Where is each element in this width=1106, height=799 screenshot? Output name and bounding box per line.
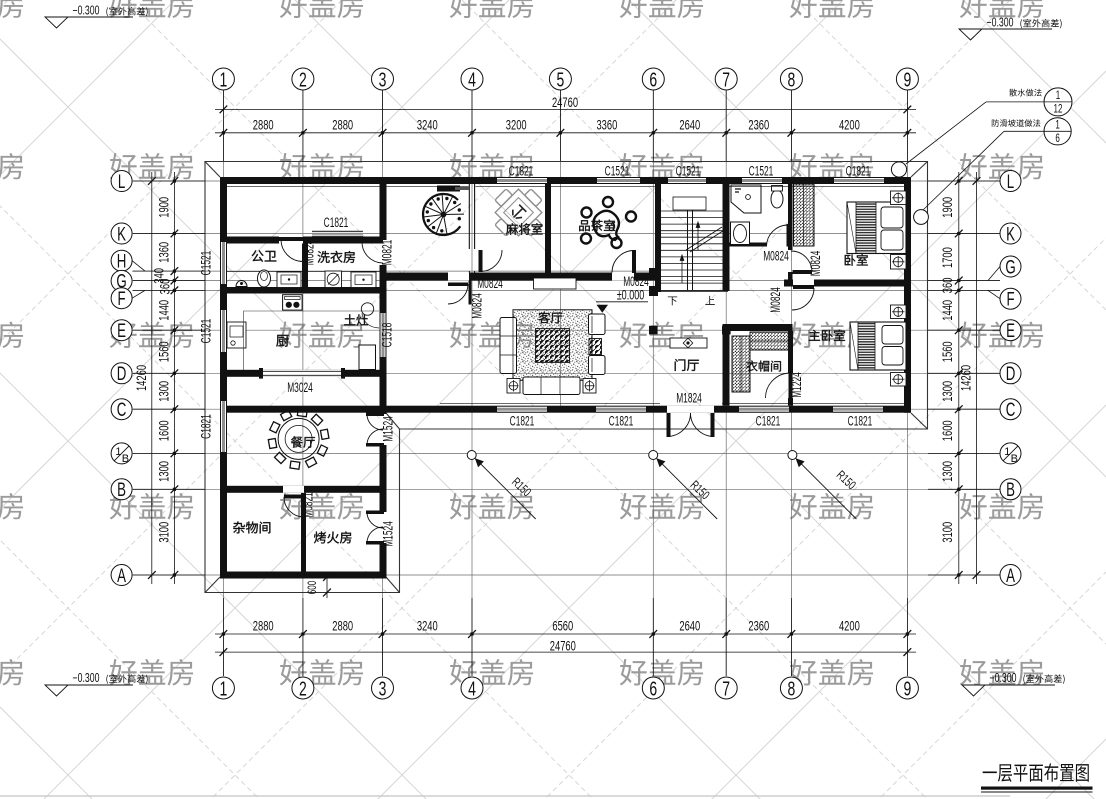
svg-text:M3024: M3024 — [287, 381, 313, 395]
svg-text:M0824: M0824 — [303, 240, 317, 266]
svg-text:1360: 1360 — [156, 242, 172, 263]
svg-text:E: E — [1006, 321, 1015, 342]
svg-text:2: 2 — [299, 68, 307, 91]
door gap M3024 row D — [261, 370, 343, 377]
door M0824 corridor-living — [448, 283, 468, 287]
label 品茶室 — [579, 220, 615, 232]
living room sofa bottom — [523, 377, 580, 395]
column pier c6-H — [649, 268, 658, 277]
door M0824 master — [793, 285, 814, 289]
label 餐厅 — [291, 436, 315, 447]
door gap M1224 closet — [788, 373, 793, 398]
svg-text:3: 3 — [379, 677, 387, 700]
dimension texts right chain — [939, 197, 955, 543]
wall mahjong-tea divider — [545, 184, 551, 273]
door gap M0821 col3 laundry — [380, 240, 387, 265]
dimension texts left chain — [151, 197, 173, 543]
svg-text:C1821: C1821 — [756, 415, 781, 429]
porch column R150 #2 — [649, 451, 658, 460]
svg-text:3100: 3100 — [939, 521, 955, 542]
door gaps M0824 row G band — [448, 273, 469, 281]
svg-text:3240: 3240 — [417, 116, 438, 132]
svg-text:A: A — [117, 566, 126, 587]
window C1521 col1 kitchen — [220, 310, 227, 352]
svg-text:M1524: M1524 — [382, 521, 396, 547]
window C1518 col3 — [380, 313, 387, 357]
laundry counter — [351, 272, 376, 288]
svg-text:B: B — [117, 480, 126, 501]
living room armchair right 2 — [589, 356, 606, 375]
svg-text:3100: 3100 — [156, 521, 172, 542]
porch column R150 #1 — [467, 451, 476, 460]
label 门厅 — [675, 359, 699, 371]
svg-text:−0.300: −0.300 — [73, 4, 100, 18]
window C1821 top wall 5 — [834, 177, 884, 184]
door M0824 corridor-mahjong leaf and arc — [479, 250, 483, 272]
svg-text:C1821: C1821 — [324, 216, 349, 230]
svg-text:1440: 1440 — [939, 300, 955, 321]
door gap M0824 row K — [279, 237, 303, 244]
svg-text:M1224: M1224 — [790, 372, 804, 398]
title 一层平面布置图 — [983, 763, 1089, 782]
wire dimension lines bottom — [215, 598, 916, 676]
spiral staircase — [423, 194, 464, 235]
toilet room floor drain — [236, 281, 247, 287]
wall col 4 stub below G — [469, 281, 472, 305]
svg-text:2880: 2880 — [332, 116, 353, 132]
svg-text:8: 8 — [788, 68, 796, 91]
svg-text:1300: 1300 — [156, 381, 172, 402]
dimension texts top chain — [253, 116, 860, 132]
svg-text:C: C — [117, 400, 127, 421]
wall col 8 closet right — [788, 331, 793, 406]
door M0824 bathroom — [787, 224, 791, 247]
detail circle on apron right — [914, 210, 929, 225]
detail circle on apron corner — [891, 162, 906, 177]
svg-text:M0821: M0821 — [302, 492, 316, 518]
svg-text:M1824: M1824 — [676, 392, 702, 406]
svg-text:24760: 24760 — [550, 638, 576, 654]
wire kitchen floor area outline — [244, 311, 380, 370]
svg-text:6: 6 — [1055, 133, 1060, 146]
wall bathroom south — [726, 243, 791, 247]
svg-text:±0.000: ±0.000 — [617, 289, 645, 303]
door gaps M1524 col3 — [380, 414, 387, 445]
svg-text:M1524: M1524 — [382, 416, 396, 442]
living room side table 1 — [507, 379, 520, 394]
svg-text:L: L — [1007, 172, 1014, 193]
tea room table and chairs — [581, 197, 636, 248]
living room left sofa — [500, 318, 517, 374]
svg-text:C1521: C1521 — [200, 251, 214, 276]
wire bottom edge line — [0, 795, 1010, 797]
master nightstand 2 — [891, 373, 907, 387]
window C1821 row K — [312, 231, 363, 237]
door M0824 toilet — [279, 237, 303, 241]
svg-text:1: 1 — [1004, 446, 1010, 458]
svg-text:12: 12 — [1054, 103, 1063, 116]
wall col 3 spine — [380, 177, 387, 579]
kitchen cabinet — [359, 345, 376, 370]
svg-text:6: 6 — [649, 68, 657, 91]
svg-text:E: E — [117, 321, 126, 342]
svg-text:1560: 1560 — [156, 341, 172, 362]
svg-text:D: D — [117, 364, 127, 385]
svg-text:−0.300: −0.300 — [73, 672, 100, 686]
svg-text:3200: 3200 — [506, 116, 527, 132]
door M1524 fire room upper leaf — [366, 511, 384, 515]
window C1821 row C 2 — [596, 406, 646, 413]
svg-text:4: 4 — [468, 677, 476, 700]
stairs center stringer — [688, 208, 693, 290]
svg-text:7: 7 — [722, 677, 730, 700]
svg-text:3360: 3360 — [596, 116, 617, 132]
svg-text:1: 1 — [220, 677, 228, 700]
svg-text:2640: 2640 — [679, 116, 700, 132]
svg-text:1300: 1300 — [156, 461, 172, 482]
living room armchair right 1 — [589, 314, 606, 335]
wall col 8 stub — [788, 272, 793, 281]
svg-text:1600: 1600 — [939, 420, 955, 441]
toilet room basin oval — [258, 270, 271, 287]
svg-text:G: G — [1005, 257, 1015, 278]
svg-text:1: 1 — [115, 446, 121, 458]
window C1821 row C 3 — [739, 406, 789, 413]
wire apron 散水 outline around building — [205, 162, 928, 593]
wire window sill lines top rooms — [227, 186, 904, 188]
svg-text:2360: 2360 — [748, 618, 769, 634]
stairs direction arrows — [680, 222, 700, 283]
svg-text:24760: 24760 — [552, 94, 578, 110]
master bed — [850, 322, 906, 370]
kitchen sink — [227, 322, 246, 348]
svg-text:M0824: M0824 — [623, 275, 649, 289]
wall row G-H band mahjong/tea south — [383, 273, 657, 281]
wall divider storage-fire room — [301, 493, 306, 572]
svg-text:4200: 4200 — [839, 116, 860, 132]
mahjong table — [482, 176, 554, 248]
label 杂物间 — [233, 521, 270, 533]
door gap M0824 bathroom — [767, 243, 789, 247]
svg-text:2880: 2880 — [253, 116, 274, 132]
master nightstand 1 — [891, 305, 907, 319]
note 防滑坡道做法 leader — [992, 119, 1041, 127]
svg-text:C: C — [1006, 400, 1016, 421]
svg-text:6560: 6560 — [552, 618, 573, 634]
svg-text:8: 8 — [788, 677, 796, 700]
svg-text:1300: 1300 — [939, 381, 955, 402]
window C1521 top wall 2 — [597, 177, 640, 184]
living room side table 2 — [583, 379, 596, 394]
wire apron corner chamfers — [205, 162, 928, 593]
svg-text:9: 9 — [904, 68, 912, 91]
svg-text:1300: 1300 — [939, 461, 955, 482]
label 洗衣房 — [317, 251, 354, 263]
svg-text:B: B — [1006, 480, 1015, 501]
wall stairwell bottom edge — [655, 290, 728, 292]
dining round table with chairs — [268, 409, 329, 470]
spiral stair entry bar — [437, 186, 460, 192]
wall right exterior col 9 — [904, 177, 911, 413]
closet wardrobe horizontal strip — [750, 332, 791, 350]
wire dimension lines top — [215, 91, 916, 162]
toilet room counter — [277, 272, 301, 288]
tick marks top chain — [220, 106, 912, 137]
note 散水做法 leader — [1009, 89, 1041, 97]
svg-text:7: 7 — [722, 68, 730, 91]
svg-text:M0824: M0824 — [477, 277, 503, 291]
svg-text:M0824: M0824 — [769, 287, 783, 313]
window C1821 row C 1 — [497, 406, 547, 413]
wire dimension lines right — [928, 172, 1000, 584]
grid bubbles left rows — [111, 171, 145, 587]
svg-text:4200: 4200 — [839, 618, 860, 634]
svg-text:2880: 2880 — [332, 618, 353, 634]
svg-text:1: 1 — [220, 68, 228, 91]
window C1821 row C 4 — [833, 406, 883, 413]
svg-text:1560: 1560 — [939, 341, 955, 362]
door M0821 laundry — [361, 240, 383, 244]
grid bubbles top columns 1-9 — [212, 68, 918, 91]
svg-text:K: K — [117, 224, 126, 245]
svg-text:3240: 3240 — [417, 618, 438, 634]
wall row K toilet/laundry north — [220, 237, 386, 244]
wire counter edges toilet laundry — [227, 270, 302, 272]
door gap M1824 entry — [667, 406, 714, 413]
svg-text:C1821: C1821 — [509, 165, 534, 179]
svg-text:3: 3 — [379, 68, 387, 91]
label 土灶 — [344, 314, 368, 325]
svg-text:F: F — [1006, 289, 1014, 310]
door M1524 dining upper leaf — [366, 413, 384, 417]
wire dimension lines left — [133, 172, 205, 584]
tick marks left chain — [148, 177, 178, 579]
label 主卧室 — [809, 330, 845, 342]
wall bottom row C full — [220, 406, 911, 413]
svg-text:M0821: M0821 — [381, 240, 395, 266]
living room rug stippled border — [513, 310, 592, 381]
door M0821 storage — [284, 495, 304, 499]
note detail circle 1/12 — [1044, 88, 1072, 116]
door M1224 closet — [789, 373, 793, 398]
door gap M0824 master — [793, 280, 814, 287]
svg-text:360: 360 — [157, 278, 173, 294]
tick marks right chain — [955, 177, 981, 579]
door M1524 fire room lower leaf — [366, 541, 384, 545]
label 上 — [705, 296, 714, 305]
window C1521 col1 toilet — [220, 242, 227, 284]
label 厨 — [276, 335, 288, 347]
svg-text:B: B — [1011, 453, 1018, 465]
door M1824 entry double leaves — [667, 413, 671, 437]
door M1524 dining lower leaf — [366, 443, 384, 447]
label 卧室 — [845, 254, 868, 266]
stairs upper landing — [673, 197, 706, 210]
door gap M0821 row B — [283, 486, 304, 493]
label 衣帽间 — [746, 360, 781, 371]
foyer console table — [670, 338, 707, 348]
column pier c6-E — [649, 326, 658, 335]
svg-text:C1518: C1518 — [381, 323, 395, 348]
svg-text:M0824: M0824 — [763, 250, 789, 264]
wall col 4 corridor-mahjong thin partition — [469, 184, 474, 273]
column pier stair bottom — [649, 286, 658, 296]
svg-text:M0824: M0824 — [809, 251, 823, 277]
svg-text:5: 5 — [557, 68, 565, 91]
column pier c7-E — [722, 326, 731, 335]
wall row G master north — [784, 280, 911, 287]
svg-text:1600: 1600 — [156, 420, 172, 441]
svg-text:H: H — [117, 251, 127, 272]
svg-text:1900: 1900 — [939, 197, 955, 218]
svg-text:C1821: C1821 — [609, 415, 634, 429]
svg-text:1900: 1900 — [156, 197, 172, 218]
svg-text:1: 1 — [1056, 90, 1061, 103]
grid bubbles right rows — [988, 171, 1021, 587]
tick marks bottom chain — [220, 630, 912, 656]
laundry washing machine — [325, 271, 342, 288]
svg-text:2360: 2360 — [748, 116, 769, 132]
wall divider toilet-laundry — [302, 243, 308, 290]
svg-text:2880: 2880 — [253, 618, 274, 634]
svg-text:M0824: M0824 — [471, 293, 485, 319]
kitchen stove 2 burners — [283, 295, 303, 310]
wall left exterior col 1 — [220, 177, 227, 579]
wall stairwell left — [655, 184, 661, 292]
bedroom nightstand 1 — [891, 191, 907, 205]
door M3024 sliding lines — [261, 370, 343, 372]
bedroom nightstand 2 — [891, 255, 907, 270]
label 下 — [668, 296, 677, 305]
window C1521 top wall 4 — [742, 177, 782, 184]
dimension texts bottom chain — [253, 618, 860, 634]
wall row F kitchen north — [220, 287, 386, 294]
wall bottom left block row A — [220, 572, 386, 579]
stairs break line — [686, 227, 726, 252]
wire window sill lines row C — [440, 403, 904, 405]
svg-text:1440: 1440 — [156, 300, 172, 321]
living room rug inner hatch — [536, 329, 570, 363]
svg-text:C1521: C1521 — [605, 165, 630, 179]
wire structural grid lines — [132, 90, 1000, 676]
grid bubbles bottom columns — [212, 677, 918, 700]
label 客厅 — [538, 312, 562, 324]
wall col 8 bath-bedroom divider — [788, 184, 793, 250]
svg-text:−0.300: −0.300 — [987, 16, 1014, 30]
bedroom bed — [847, 202, 906, 254]
label 公卫 — [252, 250, 277, 262]
label 烤火房 — [314, 531, 351, 543]
svg-text:C1821: C1821 — [846, 165, 871, 179]
kitchen wood stove 土灶 — [361, 303, 373, 315]
svg-text:K: K — [1006, 224, 1015, 245]
svg-text:C1521: C1521 — [749, 165, 774, 179]
door M0824 bedroom nook — [793, 270, 813, 274]
svg-text:600: 600 — [307, 581, 320, 595]
wall row E closet north — [723, 324, 793, 331]
svg-text:1700: 1700 — [939, 247, 955, 268]
window C1821 col1 dining — [220, 401, 227, 452]
svg-text:L: L — [118, 172, 125, 193]
svg-text:D: D — [1006, 364, 1016, 385]
stairs main flight treads — [661, 211, 723, 283]
porch column R150 #3 — [788, 451, 797, 460]
svg-text:C1821: C1821 — [510, 415, 535, 429]
wall col 7 closet left — [723, 331, 730, 406]
bath toilet — [771, 190, 783, 208]
living room side hatched table — [589, 339, 602, 355]
wall top exterior row L — [220, 177, 911, 184]
svg-text:6: 6 — [649, 677, 657, 700]
svg-text:B: B — [122, 453, 129, 465]
bath washbasin — [731, 222, 750, 245]
svg-text:14260: 14260 — [958, 365, 974, 391]
svg-text:C1821: C1821 — [200, 414, 214, 439]
svg-text:C1521: C1521 — [676, 165, 701, 179]
window C1521 top wall 3 — [668, 177, 706, 184]
svg-text:C1521: C1521 — [200, 319, 214, 344]
window C1821 top wall 1 — [497, 177, 547, 184]
svg-text:2640: 2640 — [679, 618, 700, 634]
svg-text:9: 9 — [904, 677, 912, 700]
door M0824 tea room — [632, 250, 636, 273]
svg-text:−0.300: −0.300 — [990, 672, 1017, 686]
svg-text:A: A — [1006, 566, 1015, 587]
svg-text:F: F — [118, 289, 126, 310]
wall row B dining south — [220, 486, 386, 493]
svg-text:1: 1 — [1055, 119, 1060, 132]
svg-text:2: 2 — [299, 677, 307, 700]
note detail circle 1/6 — [1044, 118, 1071, 145]
label 麻将室 — [506, 223, 543, 235]
wall col 7 stair right — [723, 184, 730, 291]
svg-text:C1821: C1821 — [848, 415, 873, 429]
svg-text:360: 360 — [939, 277, 955, 293]
bedroom wardrobe hatched — [794, 184, 815, 246]
closet wardrobe vertical strip — [732, 336, 750, 392]
wall row D kitchen south — [220, 370, 386, 377]
svg-text:14260: 14260 — [133, 365, 149, 391]
svg-text:4: 4 — [468, 68, 476, 91]
bath shower enclosure — [731, 185, 761, 213]
living room TV console — [534, 278, 577, 289]
